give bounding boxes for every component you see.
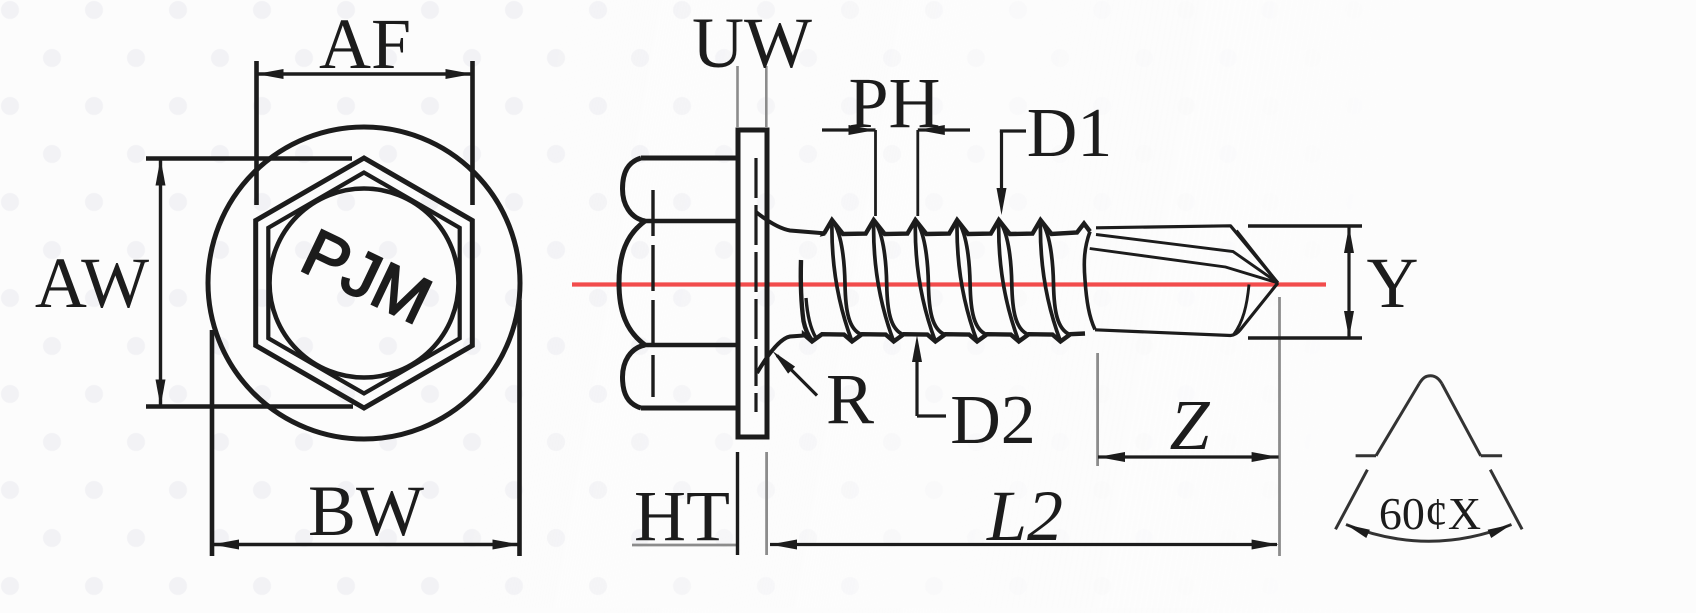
dimension PH line right segment	[918, 128, 970, 131]
svg-text:Y: Y	[1367, 243, 1419, 323]
svg-text:D2: D2	[950, 382, 1036, 459]
thread profile left flank	[1376, 384, 1419, 456]
dimension HT line	[632, 544, 736, 547]
drill body top edge and tip chamfer	[1096, 226, 1278, 283]
dimension PH line left segment	[822, 128, 876, 131]
dimension L2 left arrowhead	[770, 540, 797, 550]
thread profile right flank	[1442, 384, 1481, 456]
hex head hidden flat dashed line	[651, 190, 654, 397]
hex head side bottom line	[641, 406, 740, 411]
shank bottom silhouette with thread crests	[804, 334, 1085, 342]
svg-text:HT: HT	[634, 476, 730, 556]
dimension Z left arrowhead	[1098, 452, 1125, 462]
dimension AF line	[257, 72, 473, 75]
svg-text:R: R	[826, 359, 874, 439]
leader D2 vertical segment	[915, 350, 918, 416]
dimension AW bottom extension line	[146, 404, 353, 409]
dimension L2 line	[770, 543, 1277, 546]
drill tip chamfer inner line	[1237, 231, 1278, 283]
angle left extension line	[1336, 470, 1368, 530]
dimension AW up arrowhead	[156, 159, 166, 186]
angle dimension arc	[1346, 525, 1512, 542]
svg-text:PH: PH	[848, 63, 940, 143]
drill tip bottom flute curve	[1234, 285, 1250, 335]
angle arc left arrowhead	[1346, 525, 1370, 539]
hex head side top line	[641, 156, 740, 161]
thread blade 1 leading edge	[832, 220, 852, 341]
dimension PH right extension line	[916, 130, 919, 216]
dimension BW right extension line	[517, 300, 522, 556]
drill body bottom edge and tip cone	[1095, 283, 1278, 336]
svg-text:60¢X: 60¢X	[1379, 488, 1481, 539]
hex head outer hexagon (front view)	[256, 158, 473, 408]
dimension AF left arrowhead	[257, 69, 284, 79]
dimension PH left arrowhead	[849, 125, 876, 135]
leader D2 arrowhead	[912, 335, 922, 362]
thread blade 3 trailing edge	[915, 220, 944, 334]
dimension HT left extension line	[736, 452, 739, 555]
drill flute runout boundary	[1084, 232, 1095, 330]
svg-text:PJM: PJM	[291, 214, 442, 338]
dimension Y bottom extension line	[1248, 336, 1362, 339]
dimension Z / L2 tip extension line	[1278, 297, 1281, 556]
dimension UW left extension line	[736, 66, 739, 128]
drill flute upper edge	[1096, 235, 1278, 283]
fillet under washer bottom	[757, 336, 804, 374]
red centerline	[572, 282, 1326, 286]
svg-text:Z: Z	[1169, 385, 1210, 465]
thread profile left tick	[1356, 454, 1376, 457]
svg-text:BW: BW	[308, 471, 424, 551]
leader D2 horizontal segment	[917, 414, 946, 417]
drill flute lower edge	[1090, 249, 1278, 283]
dimension BW line	[212, 543, 520, 546]
thread blade 4 leading edge	[957, 220, 977, 341]
dimension PH right arrowhead	[918, 125, 945, 135]
svg-text:AW: AW	[35, 243, 149, 323]
thread blade 4 trailing edge	[957, 220, 986, 334]
angle arc right arrowhead	[1488, 525, 1512, 539]
leader D1 vertical segment	[1000, 131, 1003, 200]
thread start edge	[801, 260, 812, 341]
dimension AF right arrowhead	[446, 69, 473, 79]
thread blade 1 trailing edge	[832, 220, 861, 334]
thread blade 5 leading edge	[999, 220, 1019, 341]
washer face inner dashed line	[754, 158, 757, 412]
thread blade 2 trailing edge	[874, 220, 903, 334]
washer flange rectangle	[738, 130, 767, 437]
thread blade 3 leading edge	[915, 220, 935, 341]
hex head inscribed circle	[270, 189, 459, 378]
thread profile rounded crest	[1419, 376, 1442, 384]
thread start inner line	[806, 298, 816, 337]
shank top silhouette with thread crests	[824, 220, 1090, 234]
dimension AW down arrowhead	[156, 380, 166, 407]
thread blade 6 leading edge	[1040, 220, 1060, 341]
dimension BW right arrowhead	[493, 540, 520, 550]
hex head middle facet left arc	[619, 221, 645, 345]
hex head side lower facet line	[645, 343, 740, 348]
leader D1 horizontal segment	[1000, 129, 1026, 132]
dimension HT right extension line	[765, 452, 768, 555]
dimension Y up arrowhead	[1344, 226, 1354, 253]
svg-text:D1: D1	[1027, 95, 1113, 172]
dimension PH left extension line	[874, 130, 877, 216]
leader R arrowhead	[773, 351, 796, 374]
dimension BW left arrowhead	[212, 540, 239, 550]
dimension Y line	[1347, 226, 1350, 338]
thread profile right tick	[1481, 454, 1502, 457]
hex head side upper facet line	[645, 219, 740, 224]
dimension Z line	[1098, 455, 1279, 458]
svg-text:UW: UW	[692, 3, 812, 83]
dimension Y top extension line	[1248, 224, 1362, 227]
dimension AF left extension line	[254, 61, 259, 205]
angle right extension line	[1490, 470, 1522, 530]
washer flange outer circle (front view)	[208, 127, 520, 439]
hex head top facet left arc	[623, 158, 646, 221]
dimension Z left extension line	[1096, 353, 1099, 466]
hex head bottom facet left arc	[623, 345, 646, 408]
dimension BW left extension line	[210, 330, 215, 556]
hex head chamfer inner hexagon	[268, 173, 459, 394]
thread blade 2 leading edge	[874, 220, 894, 341]
dimension L2 right arrowhead	[1252, 540, 1279, 550]
dimension UW right extension line	[765, 66, 768, 128]
leader R line	[777, 356, 817, 396]
dimension Y down arrowhead	[1344, 311, 1354, 338]
dimension AF right extension line	[470, 61, 475, 205]
thread blade 6 trailing edge	[1041, 220, 1070, 334]
leader D1 arrowhead	[997, 188, 1007, 215]
svg-text:L2: L2	[986, 476, 1063, 556]
thread blade 5 trailing edge	[999, 220, 1028, 334]
svg-text:AF: AF	[319, 4, 411, 84]
dimension Z right arrowhead	[1252, 452, 1279, 462]
dimension AW line	[159, 160, 162, 405]
fillet under washer top	[756, 212, 825, 233]
dimension AW top extension line	[146, 156, 352, 161]
